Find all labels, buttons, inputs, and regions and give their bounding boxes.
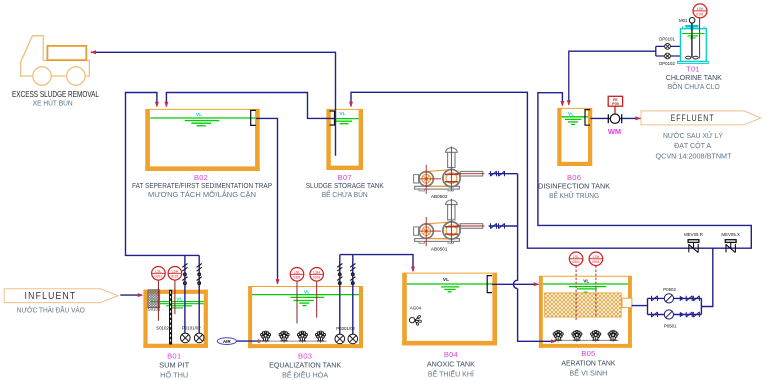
bar screen S0102: [169, 290, 172, 345]
svg-text:LSL: LSL: [155, 269, 161, 273]
pump P0502: [664, 294, 673, 303]
svg-text:LSH: LSH: [172, 269, 179, 273]
svg-text:LSH: LSH: [697, 7, 704, 11]
svg-text:VL: VL: [339, 111, 345, 117]
tank B01 water level: [150, 302, 204, 308]
svg-text:0101: 0101: [171, 275, 179, 279]
wire sludge return header to B07 and discharge header to B06: [351, 92, 751, 248]
node AIR connector: [217, 338, 236, 345]
svg-text:B01: B01: [167, 351, 181, 360]
pump P0101: [181, 333, 191, 343]
flex joints pump suction: [652, 296, 658, 301]
svg-text:P0502: P0502: [663, 287, 676, 292]
mixer AG04: [409, 315, 421, 325]
svg-text:DISINFECTION TANK: DISINFECTION TANK: [538, 183, 610, 190]
arrow into B04: [411, 267, 415, 273]
tank B04 water level: [407, 284, 493, 292]
svg-text:P05: P05: [612, 102, 619, 106]
svg-text:DP0101: DP0101: [659, 37, 675, 42]
svg-text:AB0502: AB0502: [431, 194, 448, 199]
tank B06 disinfection walls: [557, 108, 592, 166]
flex riser joints B01 pipes: [182, 264, 187, 285]
wire B02 overflow to B03: [256, 118, 278, 283]
chlorine tank T01: [678, 23, 709, 64]
tank B06 outlet weir: [585, 110, 590, 126]
mixer motor M01: [679, 18, 695, 24]
arrow into B06 inlet 1: [560, 101, 564, 107]
svg-text:B02: B02: [194, 173, 208, 182]
air diffusers B03: [261, 331, 271, 341]
svg-text:WM: WM: [608, 127, 621, 136]
tank B02 outlet weir: [251, 110, 256, 125]
level switch LSL B05: [569, 252, 583, 321]
wire B06 to water meter to effluent: [590, 117, 640, 119]
pump P0501: [664, 310, 673, 319]
wire B05 outlet and pump manifold: [632, 248, 713, 314]
arrow into B02 inlet 1: [155, 102, 159, 108]
svg-text:AG04: AG04: [410, 306, 422, 311]
svg-text:0501: 0501: [572, 260, 580, 264]
tank B02 water level: [150, 118, 255, 126]
tank B07 water level: [331, 119, 359, 124]
svg-text:0501: 0501: [592, 260, 600, 264]
flex joints on blower discharges: [491, 171, 497, 176]
diffuser manifold B05: [554, 340, 618, 342]
svg-text:VL: VL: [583, 279, 589, 285]
svg-text:AERATION TANK: AERATION TANK: [561, 360, 615, 367]
diffuser manifold B03: [257, 341, 326, 343]
pump P0301: [335, 334, 345, 344]
influent banner: [4, 289, 118, 303]
svg-text:LSL: LSL: [573, 255, 579, 259]
wire B07 supernatant return to B02: [166, 93, 334, 119]
arrow into B02 inlet 2: [164, 102, 168, 108]
wire truck suction from B07: [91, 52, 336, 156]
valve MEV05.R: [688, 240, 699, 253]
screen S0101 basket: [148, 290, 160, 308]
svg-text:M01: M01: [679, 18, 688, 23]
level switch LSL B03: [290, 268, 304, 324]
tank B02 fat separator walls: [145, 109, 259, 171]
svg-text:BỂ CHỨA BÙN: BỂ CHỨA BÙN: [322, 190, 368, 199]
svg-text:SUM PIT: SUM PIT: [159, 362, 190, 369]
arrow air into B03: [258, 339, 264, 343]
svg-text:AB0501: AB0501: [431, 246, 448, 251]
tank B05 water level: [543, 284, 628, 292]
wire B01 pumps to B02: [126, 93, 200, 334]
tank B03 water level: [252, 295, 359, 306]
valve MEV05.X: [725, 240, 736, 253]
effluent banner: [641, 111, 761, 125]
arrow into effluent banner: [635, 116, 641, 120]
pump P0102: [194, 333, 204, 343]
svg-text:MEV05.X: MEV05.X: [721, 232, 740, 237]
svg-text:S0101: S0101: [148, 307, 161, 312]
svg-text:LSH: LSH: [313, 270, 320, 274]
svg-text:LSL: LSL: [294, 270, 300, 274]
tank B06 water level: [562, 117, 589, 125]
tank B05 outlet notch: [622, 298, 632, 307]
tank B04 outlet weir: [487, 276, 492, 293]
arrow into B07: [349, 102, 353, 108]
svg-text:DP0102: DP0102: [659, 61, 675, 66]
arrow into B06 inlet 2: [567, 100, 571, 106]
svg-text:0301: 0301: [293, 276, 301, 280]
svg-text:AIR: AIR: [223, 339, 232, 344]
wire B04 to B05: [492, 283, 538, 285]
tank B03 equalization walls: [248, 287, 363, 349]
air diffusers B05: [553, 330, 563, 340]
pump P0302: [348, 334, 358, 344]
svg-text:EQUALIZATION TANK: EQUALIZATION TANK: [269, 362, 341, 369]
svg-text:P0101/02: P0101/02: [182, 326, 201, 331]
svg-text:LSH: LSH: [593, 255, 600, 259]
tank B07 inlet weir: [330, 111, 335, 125]
wire influent to B01: [120, 294, 142, 296]
arrow into truck: [90, 50, 96, 54]
svg-text:B07: B07: [338, 173, 352, 182]
svg-text:VL: VL: [196, 112, 202, 118]
svg-text:EFFLUENT: EFFLUENT: [671, 113, 715, 124]
svg-text:P0501: P0501: [664, 323, 677, 328]
check valves pump discharge: [680, 296, 685, 318]
flow element FE box: [608, 96, 622, 106]
svg-text:P0301/02: P0301/02: [336, 326, 355, 331]
tank B05 aeration walls: [539, 276, 632, 348]
svg-text:FAT SEPERATE/FIRST SEDIMENTATI: FAT SEPERATE/FIRST SEDIMENTATION TRAP: [132, 183, 272, 190]
excess sludge truck: [21, 36, 90, 86]
dosing pump DP0101: [665, 44, 671, 50]
svg-text:T01: T01: [686, 64, 700, 73]
svg-text:B04: B04: [444, 350, 458, 359]
blower AB0502: [414, 147, 485, 194]
svg-text:B05: B05: [581, 349, 595, 358]
svg-text:INFLUENT: INFLUENT: [25, 291, 77, 302]
svg-text:CHLORINE TANK: CHLORINE TANK: [666, 75, 722, 82]
svg-text:BỂ KHỬ TRÙNG: BỂ KHỬ TRÙNG: [549, 191, 599, 200]
svg-text:B06: B06: [567, 173, 581, 182]
tank B05 media block: [545, 293, 622, 317]
water meter WM: [608, 106, 621, 123]
wire AIR supply to B03 diffusers: [236, 340, 261, 342]
svg-text:ANOXIC TANK: ANOXIC TANK: [427, 361, 475, 368]
arrow into B03: [276, 279, 280, 285]
dosing pump DP0102: [665, 53, 671, 59]
svg-text:EXCESS SLUDGE REMOVAL: EXCESS SLUDGE REMOVAL: [12, 90, 99, 99]
flex riser joints B03 pipes: [337, 264, 342, 285]
svg-text:XE HÚT BÙN: XE HÚT BÙN: [33, 99, 73, 108]
arrow into B05: [534, 282, 540, 286]
level switch LSH B03: [310, 268, 324, 318]
svg-text:VL: VL: [443, 277, 449, 283]
svg-text:MƯƠNG TÁCH MỠ/LẮNG CẶN: MƯƠNG TÁCH MỠ/LẮNG CẶN: [148, 190, 256, 199]
svg-text:QCVN 14:2008/BTNMT: QCVN 14:2008/BTNMT: [656, 151, 732, 160]
wire chlorine dosing to B06: [569, 46, 681, 104]
tank B04 anoxic walls: [402, 273, 497, 345]
svg-text:0101: 0101: [696, 12, 704, 16]
level switch on T01: [693, 4, 707, 59]
svg-text:VL: VL: [304, 289, 310, 295]
svg-text:BỂ VI SINH: BỂ VI SINH: [569, 368, 607, 377]
arrow air into B05: [551, 339, 557, 343]
svg-text:S0102: S0102: [156, 326, 169, 331]
arrow into B01: [138, 293, 144, 297]
svg-text:0301: 0301: [313, 276, 321, 280]
svg-text:B03: B03: [298, 351, 312, 360]
svg-text:SLUDGE STORAGE TANK: SLUDGE STORAGE TANK: [306, 183, 384, 190]
wire B03 pumps to B04: [340, 255, 413, 335]
wire blower air header to B05 diffusers: [489, 174, 556, 342]
svg-text:ĐẠT CỘT A: ĐẠT CỘT A: [674, 141, 711, 150]
tank B07 sludge storage walls: [326, 109, 363, 170]
svg-text:0101: 0101: [155, 275, 163, 279]
level switch LSH B05: [589, 252, 603, 316]
svg-text:VL: VL: [176, 297, 182, 303]
blower AB0501: [414, 199, 485, 246]
tank B01 sump pit walls: [143, 290, 208, 348]
svg-text:VL: VL: [568, 111, 574, 117]
level switch LSL B01: [152, 267, 166, 321]
svg-text:MEV05.R: MEV05.R: [684, 232, 703, 237]
svg-text:NƯỚC THẢI ĐẦU VÀO: NƯỚC THẢI ĐẦU VÀO: [17, 305, 85, 315]
svg-text:NƯỚC SAU XỬ LÝ: NƯỚC SAU XỬ LÝ: [663, 131, 723, 140]
level switch LSH B01: [168, 267, 182, 315]
